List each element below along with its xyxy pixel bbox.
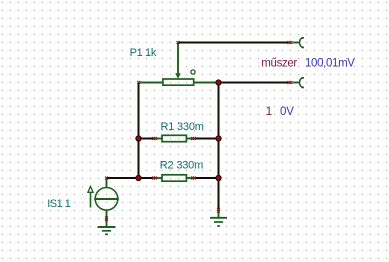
svg-text:0V: 0V bbox=[280, 106, 294, 118]
svg-text:P1 1k: P1 1k bbox=[130, 47, 157, 59]
svg-text:műszer: műszer bbox=[261, 58, 297, 70]
svg-text:R2 330m: R2 330m bbox=[160, 160, 203, 172]
svg-text:R1 330m: R1 330m bbox=[161, 121, 204, 133]
svg-text:IS1 1: IS1 1 bbox=[47, 198, 71, 210]
svg-text:100,01mV: 100,01mV bbox=[305, 58, 355, 70]
svg-text:1: 1 bbox=[266, 106, 272, 118]
